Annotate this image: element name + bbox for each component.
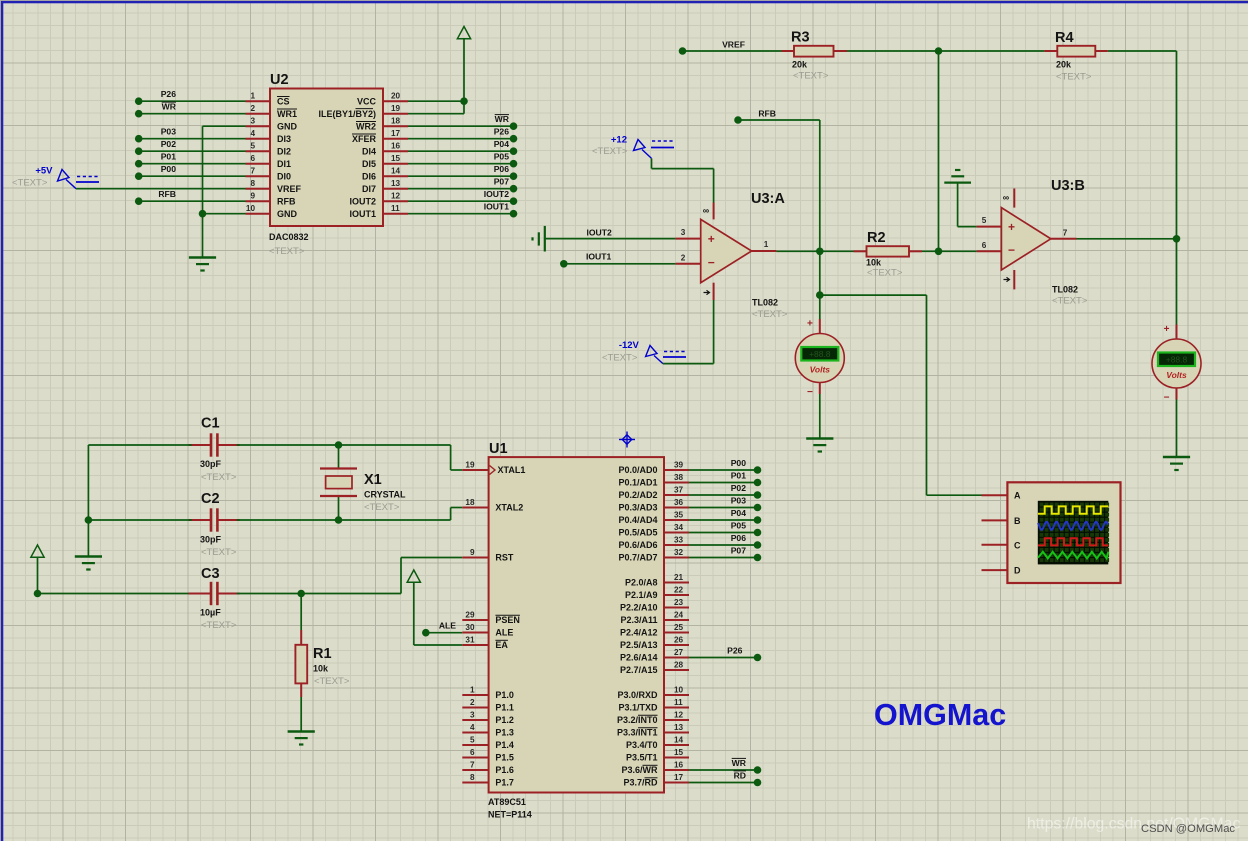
- op-amp U3:A: [675, 203, 776, 301]
- svg-text:<TEXT>: <TEXT>: [201, 472, 237, 483]
- svg-text:P00: P00: [731, 458, 747, 468]
- svg-text:+: +: [708, 232, 715, 246]
- svg-text:C: C: [1014, 540, 1021, 550]
- R1 reference label: [313, 646, 332, 662]
- resistor R4: [1044, 46, 1107, 57]
- svg-text:18: 18: [391, 117, 401, 126]
- svg-text:P05: P05: [494, 152, 510, 162]
- R2 value 10k: [866, 258, 882, 268]
- svg-text:WR: WR: [495, 114, 510, 124]
- voltmeter right: [1152, 324, 1201, 404]
- oscilloscope channel stubs: [982, 495, 1008, 570]
- svg-text:P0.4/AD4: P0.4/AD4: [618, 515, 657, 525]
- wire junction R3-R4 down to R2 output node: [938, 51, 940, 251]
- svg-text:<TEXT>: <TEXT>: [867, 268, 903, 279]
- svg-text:P0.5/AD5: P0.5/AD5: [618, 528, 657, 538]
- svg-text:U2: U2: [270, 72, 289, 88]
- svg-text:ILE(BY1/BY2): ILE(BY1/BY2): [318, 109, 376, 119]
- svg-text:10k: 10k: [866, 258, 882, 268]
- wire voltmeter right to ground: [1176, 400, 1178, 457]
- svg-text:7: 7: [1063, 229, 1068, 238]
- svg-text:C2: C2: [201, 491, 220, 507]
- svg-text:IOUT2: IOUT2: [586, 227, 612, 237]
- watermark CSDN id: [1141, 823, 1235, 835]
- svg-text:DI4: DI4: [362, 146, 376, 156]
- svg-text:<TEXT>: <TEXT>: [269, 246, 305, 257]
- svg-text:P1.5: P1.5: [495, 753, 514, 763]
- U1 left pin stubs: [462, 470, 488, 783]
- OMGMac logo text: [874, 698, 1006, 732]
- wire voltmeter node to oscilloscope channel A: [820, 295, 982, 495]
- R4 property <TEXT>: [1056, 72, 1092, 83]
- wire net IOUT2 from U2 pin 12: [408, 189, 517, 205]
- svg-text:38: 38: [674, 473, 684, 482]
- svg-text:U3:B: U3:B: [1051, 178, 1085, 194]
- svg-text:P07: P07: [731, 546, 747, 556]
- power -12V symbol: [619, 340, 687, 364]
- svg-text:Volts: Volts: [810, 365, 831, 375]
- wire +5V to U2 pin8 VREF: [76, 188, 246, 190]
- svg-text:GND: GND: [277, 121, 298, 131]
- R2 property <TEXT>: [867, 268, 903, 279]
- svg-text:P0.0/AD0: P0.0/AD0: [618, 465, 657, 475]
- wire U3:B output to right rail: [1077, 235, 1181, 243]
- svg-text:PSEN: PSEN: [495, 615, 520, 625]
- svg-text:DI5: DI5: [362, 159, 376, 169]
- +5V property <TEXT>: [12, 178, 48, 189]
- svg-text:1: 1: [250, 92, 255, 101]
- svg-text:9: 9: [250, 192, 255, 201]
- chip U2 DAC0832 body: [270, 89, 383, 227]
- wire net P07 from U2 pin 13: [408, 177, 517, 193]
- svg-text:10: 10: [246, 204, 256, 213]
- power +5V symbol: [35, 166, 100, 189]
- svg-text:IOUT1: IOUT1: [586, 252, 612, 262]
- svg-text:TL082: TL082: [752, 298, 778, 308]
- svg-text:P1.1: P1.1: [495, 703, 514, 713]
- R1 property <TEXT>: [314, 676, 350, 687]
- svg-text:+12: +12: [611, 135, 627, 146]
- svg-text:P01: P01: [161, 152, 177, 162]
- svg-text:3: 3: [250, 117, 255, 126]
- wire net WR from U1 pin 16: [689, 758, 761, 774]
- svg-text:WR1: WR1: [277, 109, 297, 119]
- node VREF: [679, 40, 782, 55]
- svg-text:VREF: VREF: [277, 184, 302, 194]
- U1 right pin numbers: [674, 461, 684, 783]
- svg-text:DI0: DI0: [277, 171, 291, 181]
- svg-text:15: 15: [391, 154, 401, 163]
- wire net P01 from U1 pin 38: [689, 471, 761, 487]
- wire net IOUT1 to U3:A pin2: [560, 252, 675, 268]
- wire U3:A output node down to voltmeter: [816, 251, 824, 319]
- wire net P03 from U1 pin 36: [689, 496, 761, 512]
- C3 property <TEXT>: [201, 620, 237, 631]
- svg-text:7: 7: [470, 761, 475, 770]
- C1 value 30pF: [200, 459, 222, 469]
- svg-text:P1.4: P1.4: [495, 740, 514, 750]
- U1 left pin numbers: [465, 461, 475, 783]
- U3:B property <TEXT>: [1052, 296, 1088, 307]
- wire net WR from U2 pin 18: [408, 114, 517, 130]
- svg-text:R1: R1: [313, 646, 332, 662]
- svg-text:P3.0/RXD: P3.0/RXD: [617, 690, 658, 700]
- svg-text:IOUT1: IOUT1: [349, 209, 376, 219]
- svg-text:R3: R3: [791, 30, 810, 46]
- svg-text:27: 27: [674, 648, 684, 657]
- svg-text:P04: P04: [494, 139, 510, 149]
- wire net P06 from U1 pin 33: [689, 533, 761, 549]
- svg-text:P04: P04: [731, 508, 747, 518]
- svg-text:<TEXT>: <TEXT>: [602, 353, 638, 364]
- ground below left voltmeter: [806, 439, 833, 452]
- svg-text:GND: GND: [277, 209, 298, 219]
- U2 left pin numbers: [246, 92, 256, 214]
- svg-text:∞: ∞: [1003, 193, 1010, 203]
- U3:B reference label: [1051, 178, 1085, 194]
- U3:B value TL082: [1052, 285, 1078, 295]
- wire net P00 from U1 pin 39: [689, 458, 761, 474]
- wire -12V to U3:A V- pin: [663, 300, 714, 364]
- ground below right voltmeter: [1163, 457, 1190, 470]
- svg-text:ALE: ALE: [439, 621, 456, 631]
- svg-text:P26: P26: [494, 127, 510, 137]
- svg-text:DI7: DI7: [362, 184, 376, 194]
- R4 reference label: [1055, 30, 1074, 46]
- svg-text:P2.6/A14: P2.6/A14: [620, 653, 658, 663]
- power +12 symbol: [611, 135, 675, 159]
- svg-text:−: −: [807, 387, 813, 398]
- svg-text:15: 15: [674, 748, 684, 757]
- svg-text:4: 4: [250, 129, 255, 138]
- R4 value 20k: [1056, 60, 1072, 70]
- svg-text:23: 23: [674, 598, 684, 607]
- svg-text:P2.5/A13: P2.5/A13: [620, 640, 658, 650]
- svg-text:19: 19: [391, 104, 401, 113]
- earth symbol on IOUT2: [533, 226, 545, 252]
- svg-text:2: 2: [470, 698, 475, 707]
- svg-text:XTAL1: XTAL1: [498, 465, 526, 475]
- svg-text:5: 5: [470, 736, 475, 745]
- wire net RFB to U2 pin 9: [135, 189, 246, 205]
- svg-text:P3.1/TXD: P3.1/TXD: [618, 703, 658, 713]
- op-amp U3:B: [977, 189, 1077, 290]
- wire net P07 from U1 pin 32: [689, 546, 761, 562]
- svg-text:33: 33: [674, 536, 684, 545]
- svg-text:P2.3/A11: P2.3/A11: [620, 615, 657, 625]
- svg-text:30pF: 30pF: [200, 459, 222, 469]
- wire net P26 from U1 pin 27: [689, 646, 761, 662]
- svg-text:WR: WR: [162, 102, 177, 112]
- svg-text:P06: P06: [494, 164, 510, 174]
- U3:A value TL082: [752, 298, 778, 308]
- power arrow VCC: [457, 27, 470, 39]
- watermark blog url: [1027, 816, 1240, 833]
- svg-text:+5V: +5V: [35, 166, 53, 177]
- svg-text:<TEXT>: <TEXT>: [752, 309, 788, 320]
- svg-text:8: 8: [470, 773, 475, 782]
- resistor R3: [782, 46, 848, 57]
- wire net P26 from U2 pin 17: [408, 127, 517, 143]
- capacitor C3: [34, 582, 240, 605]
- svg-text:29: 29: [465, 611, 475, 620]
- U1 right pin stubs: [664, 470, 689, 783]
- power arrow at C3: [31, 545, 44, 594]
- wire U2 pin3 GND to pin10 GND: [199, 126, 246, 257]
- ground below R1: [288, 732, 315, 745]
- power arrow at EA: [407, 570, 462, 645]
- svg-text:1: 1: [764, 240, 769, 249]
- svg-text:11: 11: [391, 204, 400, 213]
- svg-text:30: 30: [465, 623, 475, 632]
- svg-text:6: 6: [982, 241, 987, 250]
- X1 property <TEXT>: [364, 502, 400, 513]
- svg-text:DI6: DI6: [362, 171, 376, 181]
- svg-text:36: 36: [674, 498, 684, 507]
- resistor R2: [854, 246, 923, 256]
- svg-text:35: 35: [674, 511, 684, 520]
- svg-text:P3.3/INT1: P3.3/INT1: [617, 728, 658, 738]
- svg-text:Volts: Volts: [1166, 370, 1187, 380]
- svg-text:VCC: VCC: [357, 96, 377, 106]
- svg-text:P3.5/T1: P3.5/T1: [626, 753, 658, 763]
- svg-text:<TEXT>: <TEXT>: [592, 146, 628, 157]
- U3:A pin numbers: [681, 228, 769, 262]
- resistor R1: [295, 594, 307, 732]
- svg-text:AT89C51: AT89C51: [488, 797, 526, 807]
- svg-text:D: D: [1014, 566, 1021, 576]
- svg-text:-12V: -12V: [619, 340, 640, 351]
- wire left rail to ground: [87, 520, 89, 556]
- svg-text:WR: WR: [732, 758, 747, 768]
- U2 left pin stubs: [246, 101, 271, 214]
- svg-text:14: 14: [391, 167, 401, 176]
- C3 reference label: [201, 566, 220, 582]
- svg-text:P2.4/A12: P2.4/A12: [620, 628, 658, 638]
- +12 property <TEXT>: [592, 146, 628, 157]
- svg-text:VREF: VREF: [722, 40, 745, 50]
- svg-text:24: 24: [674, 611, 684, 620]
- svg-text:20k: 20k: [792, 60, 808, 70]
- svg-text:17: 17: [674, 773, 684, 782]
- svg-text:IOUT2: IOUT2: [349, 196, 376, 206]
- svg-text:30pF: 30pF: [200, 535, 222, 545]
- svg-text:<TEXT>: <TEXT>: [12, 178, 48, 189]
- U1 value AT89C51: [488, 797, 526, 807]
- svg-text:P2.2/A10: P2.2/A10: [620, 603, 658, 613]
- svg-text:P0.1/AD1: P0.1/AD1: [618, 478, 657, 488]
- svg-text:P06: P06: [731, 533, 747, 543]
- svg-text:<TEXT>: <TEXT>: [314, 676, 350, 687]
- svg-text:CS: CS: [277, 96, 290, 106]
- svg-text:P0.3/AD3: P0.3/AD3: [618, 503, 657, 513]
- R3 reference label: [791, 30, 810, 46]
- svg-text:6: 6: [250, 154, 255, 163]
- svg-text:P26: P26: [161, 89, 177, 99]
- wire net P06 from U2 pin 14: [408, 164, 517, 180]
- C1 reference label: [201, 416, 220, 432]
- wire net IOUT1 from U2 pin 11: [408, 202, 517, 218]
- wire ground to U3:B pin5: [958, 183, 977, 227]
- chip U1 AT89C51 body: [489, 457, 664, 792]
- svg-text:A: A: [1014, 491, 1021, 501]
- svg-text:26: 26: [674, 636, 684, 645]
- svg-text:5: 5: [250, 142, 255, 151]
- svg-text:WR2: WR2: [356, 121, 376, 131]
- U1 net label NET=P114: [488, 810, 532, 820]
- svg-text:4: 4: [470, 723, 475, 732]
- svg-text:12: 12: [391, 192, 401, 201]
- wire net WR to U2 pin 2: [135, 102, 246, 118]
- svg-text:U3:A: U3:A: [751, 191, 785, 207]
- svg-text:P0.6/AD6: P0.6/AD6: [618, 540, 657, 550]
- wire voltmeter left to ground: [819, 394, 821, 438]
- wire C3 to RST: [237, 558, 463, 598]
- svg-text:P01: P01: [731, 471, 747, 481]
- svg-text:<TEXT>: <TEXT>: [364, 502, 400, 513]
- svg-text:P1.6: P1.6: [495, 765, 514, 775]
- svg-text:9: 9: [470, 548, 475, 557]
- U3:A property <TEXT>: [752, 309, 788, 320]
- svg-text:7: 7: [250, 167, 255, 176]
- svg-text:10k: 10k: [313, 664, 329, 674]
- svg-text:19: 19: [465, 461, 475, 470]
- svg-text:B: B: [1014, 516, 1021, 526]
- svg-text:EA: EA: [495, 640, 508, 650]
- svg-text:P1.7: P1.7: [495, 778, 514, 788]
- wire U2 pin20 VCC to power arrow: [408, 39, 468, 114]
- wire +12 to U3:A V+ pin: [652, 158, 714, 202]
- svg-text:DAC0832: DAC0832: [269, 232, 309, 242]
- svg-text:3: 3: [470, 711, 475, 720]
- -12V property <TEXT>: [602, 353, 638, 364]
- svg-text:R4: R4: [1055, 30, 1074, 46]
- X1 value CRYSTAL: [364, 490, 406, 500]
- wire net P26 to U2 pin 1: [135, 89, 246, 105]
- svg-text:NET=P114: NET=P114: [488, 810, 532, 820]
- svg-text:P1.0: P1.0: [495, 690, 514, 700]
- X1 reference label: [364, 472, 382, 488]
- wire U3:A output to R2: [776, 248, 853, 256]
- svg-text:−: −: [1164, 393, 1170, 404]
- svg-text:P02: P02: [731, 483, 747, 493]
- crystal X1: [320, 445, 357, 520]
- C2 property <TEXT>: [201, 547, 237, 558]
- svg-text:C3: C3: [201, 566, 220, 582]
- svg-text:+: +: [1008, 220, 1015, 234]
- U2 reference label: [270, 72, 289, 88]
- U2 right pin stubs: [383, 101, 408, 214]
- origin marker: [619, 432, 635, 448]
- svg-text:14: 14: [674, 736, 684, 745]
- U3:A reference label: [751, 191, 785, 207]
- R3 value 20k: [792, 60, 808, 70]
- inverted ground on U3:B pin5: [944, 170, 971, 183]
- svg-text:11: 11: [674, 698, 683, 707]
- svg-text:P0.2/AD2: P0.2/AD2: [618, 490, 657, 500]
- svg-text:17: 17: [391, 129, 401, 138]
- wire R3 to R4: [847, 47, 1044, 55]
- svg-text:31: 31: [465, 636, 475, 645]
- svg-text:DI3: DI3: [277, 134, 291, 144]
- svg-text:P3.6/WR: P3.6/WR: [621, 765, 658, 775]
- svg-text:U1: U1: [489, 441, 508, 457]
- svg-text:P1.3: P1.3: [495, 728, 514, 738]
- svg-text:P2.1/A9: P2.1/A9: [625, 590, 658, 600]
- ground below C1 C2 rail: [75, 557, 102, 570]
- svg-text:16: 16: [674, 761, 684, 770]
- wire C1 to XTAL1: [237, 441, 463, 470]
- svg-text:RST: RST: [495, 553, 514, 563]
- svg-text:RFB: RFB: [158, 189, 176, 199]
- svg-text:+: +: [1164, 324, 1170, 335]
- svg-text:34: 34: [674, 523, 684, 532]
- U2 value DAC0832: [269, 232, 309, 242]
- svg-text:<TEXT>: <TEXT>: [1052, 296, 1088, 307]
- C2 reference label: [201, 491, 220, 507]
- capacitor C2: [189, 508, 240, 531]
- svg-text:1: 1: [470, 686, 475, 695]
- svg-text:P1.2: P1.2: [495, 715, 514, 725]
- svg-text:XFER: XFER: [352, 134, 377, 144]
- svg-text:+88.8: +88.8: [1166, 355, 1188, 365]
- wire net IOUT2 to U3:A pin3: [545, 227, 676, 238]
- svg-text:XTAL2: XTAL2: [495, 503, 523, 513]
- wire net RD from U1 pin 17: [689, 771, 761, 787]
- svg-text:P26: P26: [727, 646, 743, 656]
- wire C2 to XTAL2: [237, 508, 463, 524]
- wire net P04 from U1 pin 35: [689, 508, 761, 524]
- svg-text:−: −: [1008, 243, 1015, 257]
- svg-text:18: 18: [465, 498, 475, 507]
- svg-text:CRYSTAL: CRYSTAL: [364, 490, 406, 500]
- svg-text:<TEXT>: <TEXT>: [201, 620, 237, 631]
- svg-text:3: 3: [681, 228, 686, 237]
- svg-text:<TEXT>: <TEXT>: [201, 547, 237, 558]
- wire net P02 from U1 pin 37: [689, 483, 761, 499]
- svg-text:P2.7/A15: P2.7/A15: [620, 665, 658, 675]
- svg-text:<TEXT>: <TEXT>: [793, 71, 829, 82]
- wire C1 to C2 left side: [85, 445, 192, 524]
- C3 value 10uF: [200, 608, 221, 618]
- svg-text:P00: P00: [161, 164, 177, 174]
- wire net P00 to U2 pin 7: [135, 164, 246, 180]
- svg-text:TL082: TL082: [1052, 285, 1078, 295]
- svg-text:P07: P07: [494, 177, 510, 187]
- wire R2 to U3:B pin6: [922, 248, 977, 256]
- svg-text:P03: P03: [161, 127, 177, 137]
- wire net P04 from U2 pin 16: [408, 139, 517, 155]
- svg-text:10µF: 10µF: [200, 608, 221, 618]
- svg-text:DI2: DI2: [277, 146, 291, 156]
- svg-text:P0.7/AD7: P0.7/AD7: [618, 553, 657, 563]
- svg-text:∞: ∞: [703, 206, 710, 216]
- wire net P02 to U2 pin 5: [135, 139, 246, 155]
- svg-text:20k: 20k: [1056, 60, 1072, 70]
- wire R4 to right rail: [1108, 51, 1177, 326]
- oscilloscope screen: [1038, 501, 1109, 565]
- ground below U2: [189, 258, 216, 271]
- svg-text:ALE: ALE: [495, 628, 513, 638]
- svg-text:<TEXT>: <TEXT>: [1056, 72, 1092, 83]
- svg-text:+: +: [807, 319, 813, 330]
- svg-text:39: 39: [674, 461, 684, 470]
- svg-text:RD: RD: [734, 771, 746, 781]
- U1 reference label: [489, 441, 508, 457]
- svg-text:10: 10: [674, 686, 684, 695]
- svg-text:RFB: RFB: [758, 109, 776, 119]
- U2 property <TEXT>: [269, 246, 305, 257]
